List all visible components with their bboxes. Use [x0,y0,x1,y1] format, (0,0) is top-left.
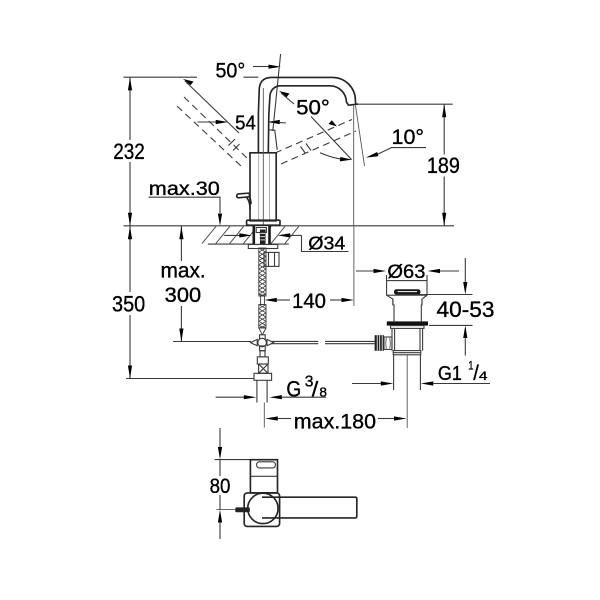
svg-text:350: 350 [112,292,145,317]
svg-text:/: / [312,377,319,401]
svg-text:G1: G1 [438,362,462,385]
svg-text:140: 140 [292,290,326,313]
svg-text:54: 54 [235,113,256,135]
svg-text:8: 8 [319,385,327,399]
svg-text:50°: 50° [216,59,246,83]
svg-text:300: 300 [165,284,201,307]
svg-text:10°: 10° [392,125,425,149]
svg-text:232: 232 [113,139,145,164]
svg-text:max.: max. [160,259,205,282]
svg-text:Ø34: Ø34 [308,232,345,253]
svg-text:G: G [286,377,301,402]
svg-text:80: 80 [210,474,231,498]
svg-text:max.180: max.180 [294,410,376,433]
svg-text:189: 189 [427,153,460,178]
svg-text:50°: 50° [296,96,330,120]
svg-text:40-53: 40-53 [437,297,495,322]
svg-text:4: 4 [479,369,488,383]
